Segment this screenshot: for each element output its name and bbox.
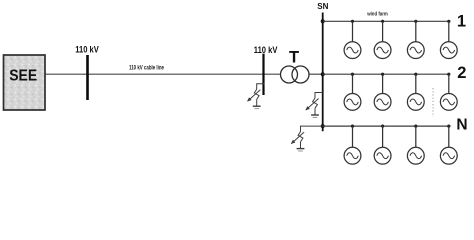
generator GN-4 (wind turbine AC source) [440,125,457,165]
svg-text:N: N [456,116,467,133]
junction main line / SN bus [321,72,325,76]
generator G2-4 (wind turbine AC source) [440,73,457,111]
generator GN-2 (wind turbine AC source) [374,125,391,165]
bus SN [322,13,324,132]
node SEE (power system equivalent) [4,55,46,110]
generator G1-4 (wind turbine AC source) [440,20,457,59]
feeder 2 line [323,73,449,75]
wind turbine generators feeder 1 [344,20,457,59]
svg-text:110 kV cable line: 110 kV cable line [129,65,164,71]
wire main line SEE to transformer [45,73,281,75]
junction feeder N / SN bus [321,124,325,128]
generator G1-3 (wind turbine AC source) [407,20,424,59]
wind turbine generators feeder N [344,125,457,165]
svg-text:SN: SN [317,2,328,11]
wire transformer to SN bus [309,73,323,75]
junction feeder 1 / SN bus [321,19,325,23]
ellipsis dotted line (more turbines) [432,88,434,117]
svg-text:2: 2 [457,64,466,82]
transformer T [281,66,310,83]
svg-text:1: 1 [457,13,466,31]
svg-text:SEE: SEE [9,68,37,85]
svg-text:110 kV: 110 kV [75,45,99,55]
svg-text:T: T [289,49,299,67]
generator G2-2 (wind turbine AC source) [374,73,391,111]
feeder N line [323,125,451,127]
generator G2-1 (wind turbine AC source) [344,73,361,111]
generator G1-1 (wind turbine AC source) [344,20,361,59]
generator GN-3 (wind turbine AC source) [407,125,424,165]
generator GN-1 (wind turbine AC source) [344,125,361,165]
surge arrester A3 at SN bus bottom [291,126,322,151]
surge arrester A1 at 110 kV busbar [248,84,265,109]
busbar 110 kV (left) [86,55,89,100]
generator G1-2 (wind turbine AC source) [374,20,391,59]
generator G2-3 (wind turbine AC source) [407,73,424,111]
busbar 110 kV (right) [262,54,264,95]
wind turbine generators feeder 2 [344,73,457,111]
surge arrester A2 at SN bus [306,93,323,118]
svg-text:wind farm: wind farm [366,11,388,17]
svg-text:110 kV: 110 kV [254,45,278,55]
feeder 1 line [323,20,451,22]
